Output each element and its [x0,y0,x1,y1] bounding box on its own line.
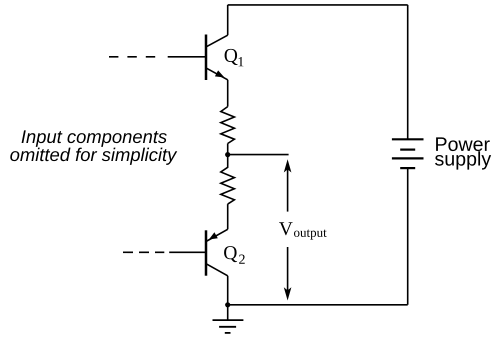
label: Power supply [435,137,491,169]
transistor Q2 (PNP) [206,229,228,275]
wire: bottom rail [228,304,408,306]
battery: power supply [392,139,424,168]
resistor R1 [221,107,235,144]
wire: Q2 collector to bottom rail [227,276,229,305]
wire: top supply rail [228,4,408,6]
ground [213,305,244,333]
wire: R2 to Q2 emitter [227,204,229,229]
transistor Q1 (NPN) [206,35,228,81]
wire: output node to V_output tap [228,154,289,156]
label Q1 [225,49,244,66]
label Q2 [224,246,245,264]
wire: R1 to output node [227,144,229,155]
label: input note [10,130,177,164]
wire: right rail, battery bottom lead [407,168,409,305]
wire: right rail, battery top lead [407,5,409,139]
resistor R2 [221,155,235,205]
wire: Q1 base lead (dashed input) [109,56,206,58]
wire: Q1 emitter to resistor R1 [227,80,229,107]
label V_output [279,222,327,239]
node: bottom junction [225,302,230,307]
V_output arrow down [284,247,292,301]
wire: Q2 base lead (dashed input) [123,251,206,253]
wire: Q1 collector to top rail [227,5,229,35]
V_output arrow up [284,159,292,211]
node: R1/R2 output junction [225,152,230,157]
